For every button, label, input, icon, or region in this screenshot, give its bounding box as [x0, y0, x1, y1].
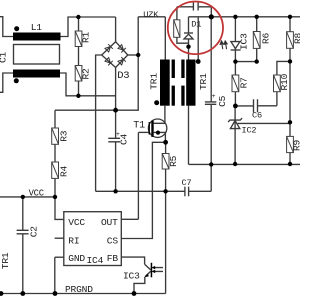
svg-text:C4: C4: [119, 133, 130, 145]
svg-text:D3: D3: [117, 70, 129, 82]
svg-text:IC2: IC2: [242, 126, 257, 136]
svg-text:RI: RI: [68, 236, 79, 247]
svg-text:T1: T1: [133, 120, 145, 131]
svg-text:TR1: TR1: [149, 73, 160, 90]
svg-text:CS: CS: [107, 236, 119, 247]
svg-text:VCC: VCC: [68, 217, 85, 228]
svg-text:R5: R5: [168, 155, 179, 167]
svg-text:R2: R2: [81, 68, 92, 80]
svg-text:R9: R9: [291, 139, 300, 151]
svg-text:R8: R8: [293, 32, 300, 44]
svg-text:C1: C1: [0, 51, 8, 63]
svg-text:C7: C7: [182, 178, 192, 188]
svg-text:R10: R10: [279, 73, 290, 90]
svg-text:IC3: IC3: [239, 33, 250, 50]
svg-text:+: +: [212, 93, 216, 100]
svg-text:D1: D1: [191, 19, 201, 29]
svg-text:FB: FB: [107, 253, 119, 264]
svg-text:R1: R1: [81, 31, 92, 43]
svg-text:C5: C5: [217, 95, 228, 107]
svg-text:IC4: IC4: [87, 255, 104, 266]
svg-text:R4: R4: [59, 165, 70, 177]
svg-text:VCC: VCC: [29, 189, 44, 199]
svg-text:PRGND: PRGND: [65, 284, 93, 295]
svg-text:C2: C2: [29, 226, 40, 238]
svg-text:R6: R6: [260, 32, 271, 44]
svg-text:R3: R3: [59, 130, 70, 142]
svg-text:IC3: IC3: [123, 270, 140, 281]
svg-text:UZK: UZK: [143, 10, 159, 20]
svg-text:L1: L1: [31, 22, 43, 33]
svg-text:GND: GND: [68, 253, 85, 264]
svg-text:R7: R7: [239, 77, 250, 88]
svg-text:TR1: TR1: [0, 252, 11, 269]
svg-text:TR1: TR1: [198, 73, 209, 90]
svg-text:OUT: OUT: [101, 217, 118, 228]
svg-text:C6: C6: [252, 111, 262, 121]
